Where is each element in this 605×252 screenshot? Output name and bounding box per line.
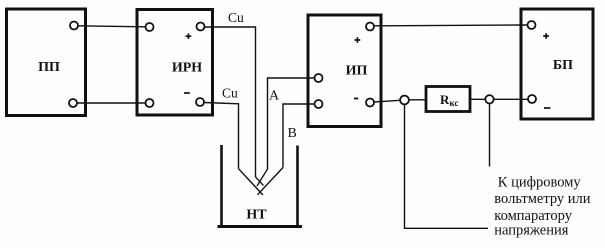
terminal circle IRN left top bbox=[146, 23, 154, 31]
wire IP to node 1 bbox=[374, 100, 400, 102]
terminal circle PP bottom bbox=[69, 99, 77, 107]
svg-text:ИП: ИП bbox=[346, 64, 368, 79]
thermocouple junction outer V bbox=[239, 168, 284, 196]
svg-text:А: А bbox=[269, 89, 280, 104]
thermocouple junction inner V bbox=[256, 169, 268, 186]
wire Rkc to node 2 bbox=[470, 98, 485, 100]
terminal circle IP left top bbox=[315, 74, 323, 82]
svg-text:НТ: НТ bbox=[246, 208, 267, 223]
node 1 terminal circle bbox=[400, 96, 409, 105]
wire PP to IRN bottom bbox=[77, 102, 146, 104]
thermostat NT vessel bbox=[218, 145, 303, 227]
terminal circle BP bottom bbox=[528, 95, 536, 103]
node 2 terminal circle bbox=[485, 95, 493, 103]
terminal circle PP top bbox=[70, 22, 78, 30]
svg-text:кс: кс bbox=[450, 98, 459, 108]
block IP (ИП) box bbox=[308, 15, 381, 127]
block BP (БП) box bbox=[521, 9, 593, 119]
wire Cu top: IRN to thermostat bbox=[205, 27, 256, 177]
terminal circle IRN right top bbox=[197, 23, 205, 31]
minus label IP bbox=[354, 98, 358, 100]
plus label BP bbox=[543, 33, 549, 39]
svg-text:R: R bbox=[440, 92, 450, 107]
wire A: IP to thermostat bbox=[268, 78, 315, 169]
wire PP to IRN top bbox=[78, 26, 146, 27]
terminal circle IRN right bottom bbox=[196, 98, 204, 106]
block PP (ПП) box bbox=[7, 9, 86, 116]
svg-text:БП: БП bbox=[553, 58, 573, 73]
terminal circle IP right bottom bbox=[366, 99, 374, 107]
terminal circle BP top bbox=[528, 21, 536, 29]
svg-text:ПП: ПП bbox=[38, 60, 60, 75]
wire node 2 to BP bbox=[494, 98, 528, 100]
svg-text:К цифровому: К цифровому bbox=[498, 174, 582, 190]
plus label IP bbox=[355, 37, 361, 43]
terminal circle IP right top bbox=[366, 23, 374, 31]
svg-text:Cu: Cu bbox=[222, 86, 238, 101]
svg-text:Cu: Cu bbox=[228, 10, 244, 25]
wire node 2 down to voltmeter label bbox=[489, 104, 491, 167]
svg-text:ИРН: ИРН bbox=[172, 61, 202, 76]
terminal circle IP left bottom bbox=[315, 100, 323, 108]
plus label IRN bbox=[186, 33, 192, 39]
minus label IRN bbox=[184, 92, 190, 94]
svg-text:вольтметру или: вольтметру или bbox=[494, 191, 590, 207]
minus label BP bbox=[544, 107, 550, 109]
terminal circle IRN left bottom bbox=[146, 99, 154, 107]
wire Cu bottom: IRN to thermostat bbox=[204, 103, 239, 169]
wire B: IP to thermostat bbox=[283, 104, 315, 168]
block IRN (ИРН) box bbox=[137, 10, 213, 116]
wire node 1 down and right to voltmeter label bbox=[405, 105, 489, 229]
resistor Rkc box bbox=[426, 87, 470, 112]
wire node 1 to Rkc bbox=[409, 99, 426, 101]
voltmeter note text bbox=[494, 174, 590, 238]
svg-text:В: В bbox=[288, 126, 297, 141]
svg-text:напряжения: напряжения bbox=[494, 222, 568, 238]
wire IP to BP top rail bbox=[375, 24, 528, 27]
